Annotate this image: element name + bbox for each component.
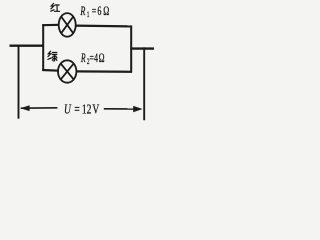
wire right external lead bbox=[130, 47, 154, 49]
wire bottom branch right segment bbox=[76, 70, 132, 73]
wire right terminal drop line bbox=[143, 47, 145, 120]
dimension arrow left (points left to terminal) bbox=[20, 105, 57, 111]
wire top branch right segment bbox=[75, 25, 132, 28]
wire bottom branch left segment bbox=[42, 69, 59, 72]
lamp red L1 bbox=[59, 13, 76, 37]
svg-text:R1=6Ω: R1=6Ω bbox=[80, 5, 110, 19]
lamp green L2 bbox=[58, 60, 76, 82]
wire left junction vertical bbox=[42, 24, 44, 71]
dimension arrow right (points right to terminal) bbox=[104, 106, 143, 112]
svg-text:R2=4Ω: R2=4Ω bbox=[80, 53, 105, 67]
wire left terminal drop line bbox=[18, 45, 20, 119]
label red lamp 红 (vector glyph) bbox=[51, 3, 60, 11]
label green lamp 绿 (vector glyph) bbox=[48, 51, 57, 61]
wire top branch left segment bbox=[42, 24, 59, 27]
wire left external lead bbox=[10, 45, 45, 47]
wire right junction vertical bbox=[130, 25, 132, 72]
svg-text:U=12V: U=12V bbox=[64, 101, 100, 117]
